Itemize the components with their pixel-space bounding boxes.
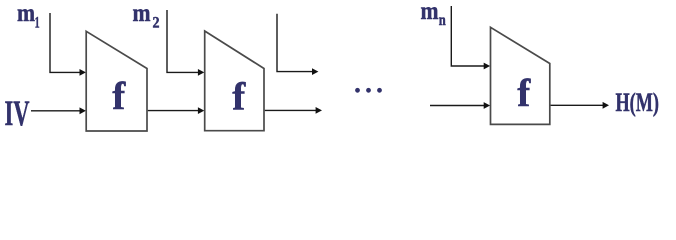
compression block f3: [491, 27, 550, 124]
svg-text:f: f: [517, 72, 531, 115]
wire m1 feed: [50, 13, 86, 76]
svg-text:m: m: [17, 0, 35, 27]
wire IV feed: [31, 107, 86, 114]
wire chain into f3: [430, 102, 490, 109]
svg-text:m: m: [133, 0, 151, 27]
wire m2 feed: [167, 10, 204, 76]
svg-text:H(M): H(M): [616, 87, 660, 117]
svg-text:m: m: [421, 0, 439, 25]
svg-text:n: n: [439, 12, 446, 29]
compression block f1: [86, 31, 147, 131]
compression block f2: [205, 31, 264, 131]
label m2: [133, 0, 160, 31]
wire m3 feed: [277, 14, 318, 75]
svg-text:1: 1: [35, 15, 40, 32]
wire chain f2 out: [265, 107, 322, 114]
svg-text:IV: IV: [5, 93, 30, 133]
svg-text:f: f: [112, 75, 126, 118]
label m1: [17, 0, 40, 32]
svg-text:2: 2: [153, 14, 160, 31]
wire output: [551, 102, 609, 109]
wire mn feed: [451, 6, 490, 69]
ellipsis dots: [355, 88, 382, 93]
svg-text:f: f: [232, 76, 246, 119]
wire chain f1 to f2: [148, 107, 205, 114]
label mn: [421, 0, 446, 29]
